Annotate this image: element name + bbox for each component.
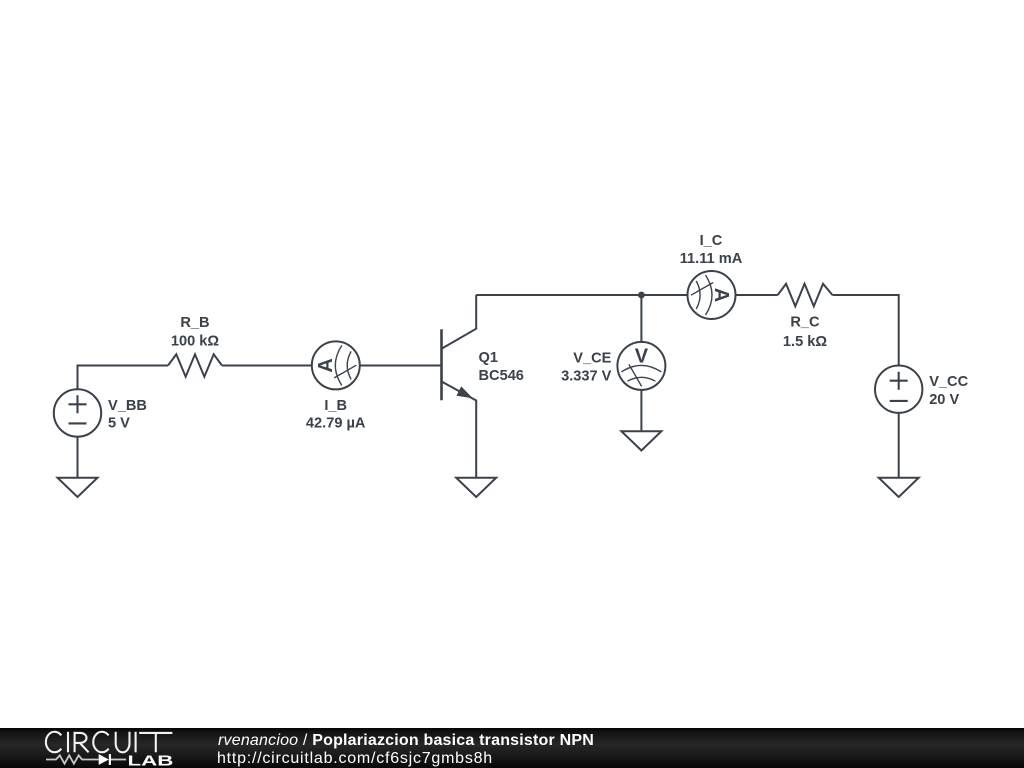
svg-text:rvenancioo / Poplariazcion bas: rvenancioo / Poplariazcion basica transi… <box>218 732 594 749</box>
svg-text:LAB: LAB <box>128 752 174 768</box>
svg-text:11.11 mA: 11.11 mA <box>680 251 743 267</box>
svg-text:5 V: 5 V <box>108 416 130 432</box>
svg-text:A: A <box>710 288 732 302</box>
svg-text:R_B: R_B <box>180 315 209 331</box>
svg-text:http://circuitlab.com/cf6sjc7g: http://circuitlab.com/cf6sjc7gmbs8h <box>217 750 493 767</box>
svg-text:I_C: I_C <box>700 233 723 249</box>
svg-text:BC546: BC546 <box>479 368 524 384</box>
svg-text:3.337 V: 3.337 V <box>561 369 612 385</box>
svg-text:I_B: I_B <box>324 398 347 414</box>
svg-text:A: A <box>315 358 337 372</box>
svg-text:42.79 µA: 42.79 µA <box>306 416 366 432</box>
svg-text:Q1: Q1 <box>479 350 498 366</box>
svg-text:V_CE: V_CE <box>573 350 611 366</box>
svg-text:V_CC: V_CC <box>929 374 968 390</box>
svg-text:100 kΩ: 100 kΩ <box>171 333 220 349</box>
svg-text:20 V: 20 V <box>929 392 959 408</box>
svg-text:V_BB: V_BB <box>108 398 147 414</box>
svg-text:1.5 kΩ: 1.5 kΩ <box>783 334 827 350</box>
svg-text:V: V <box>635 345 649 367</box>
svg-text:R_C: R_C <box>790 314 820 330</box>
